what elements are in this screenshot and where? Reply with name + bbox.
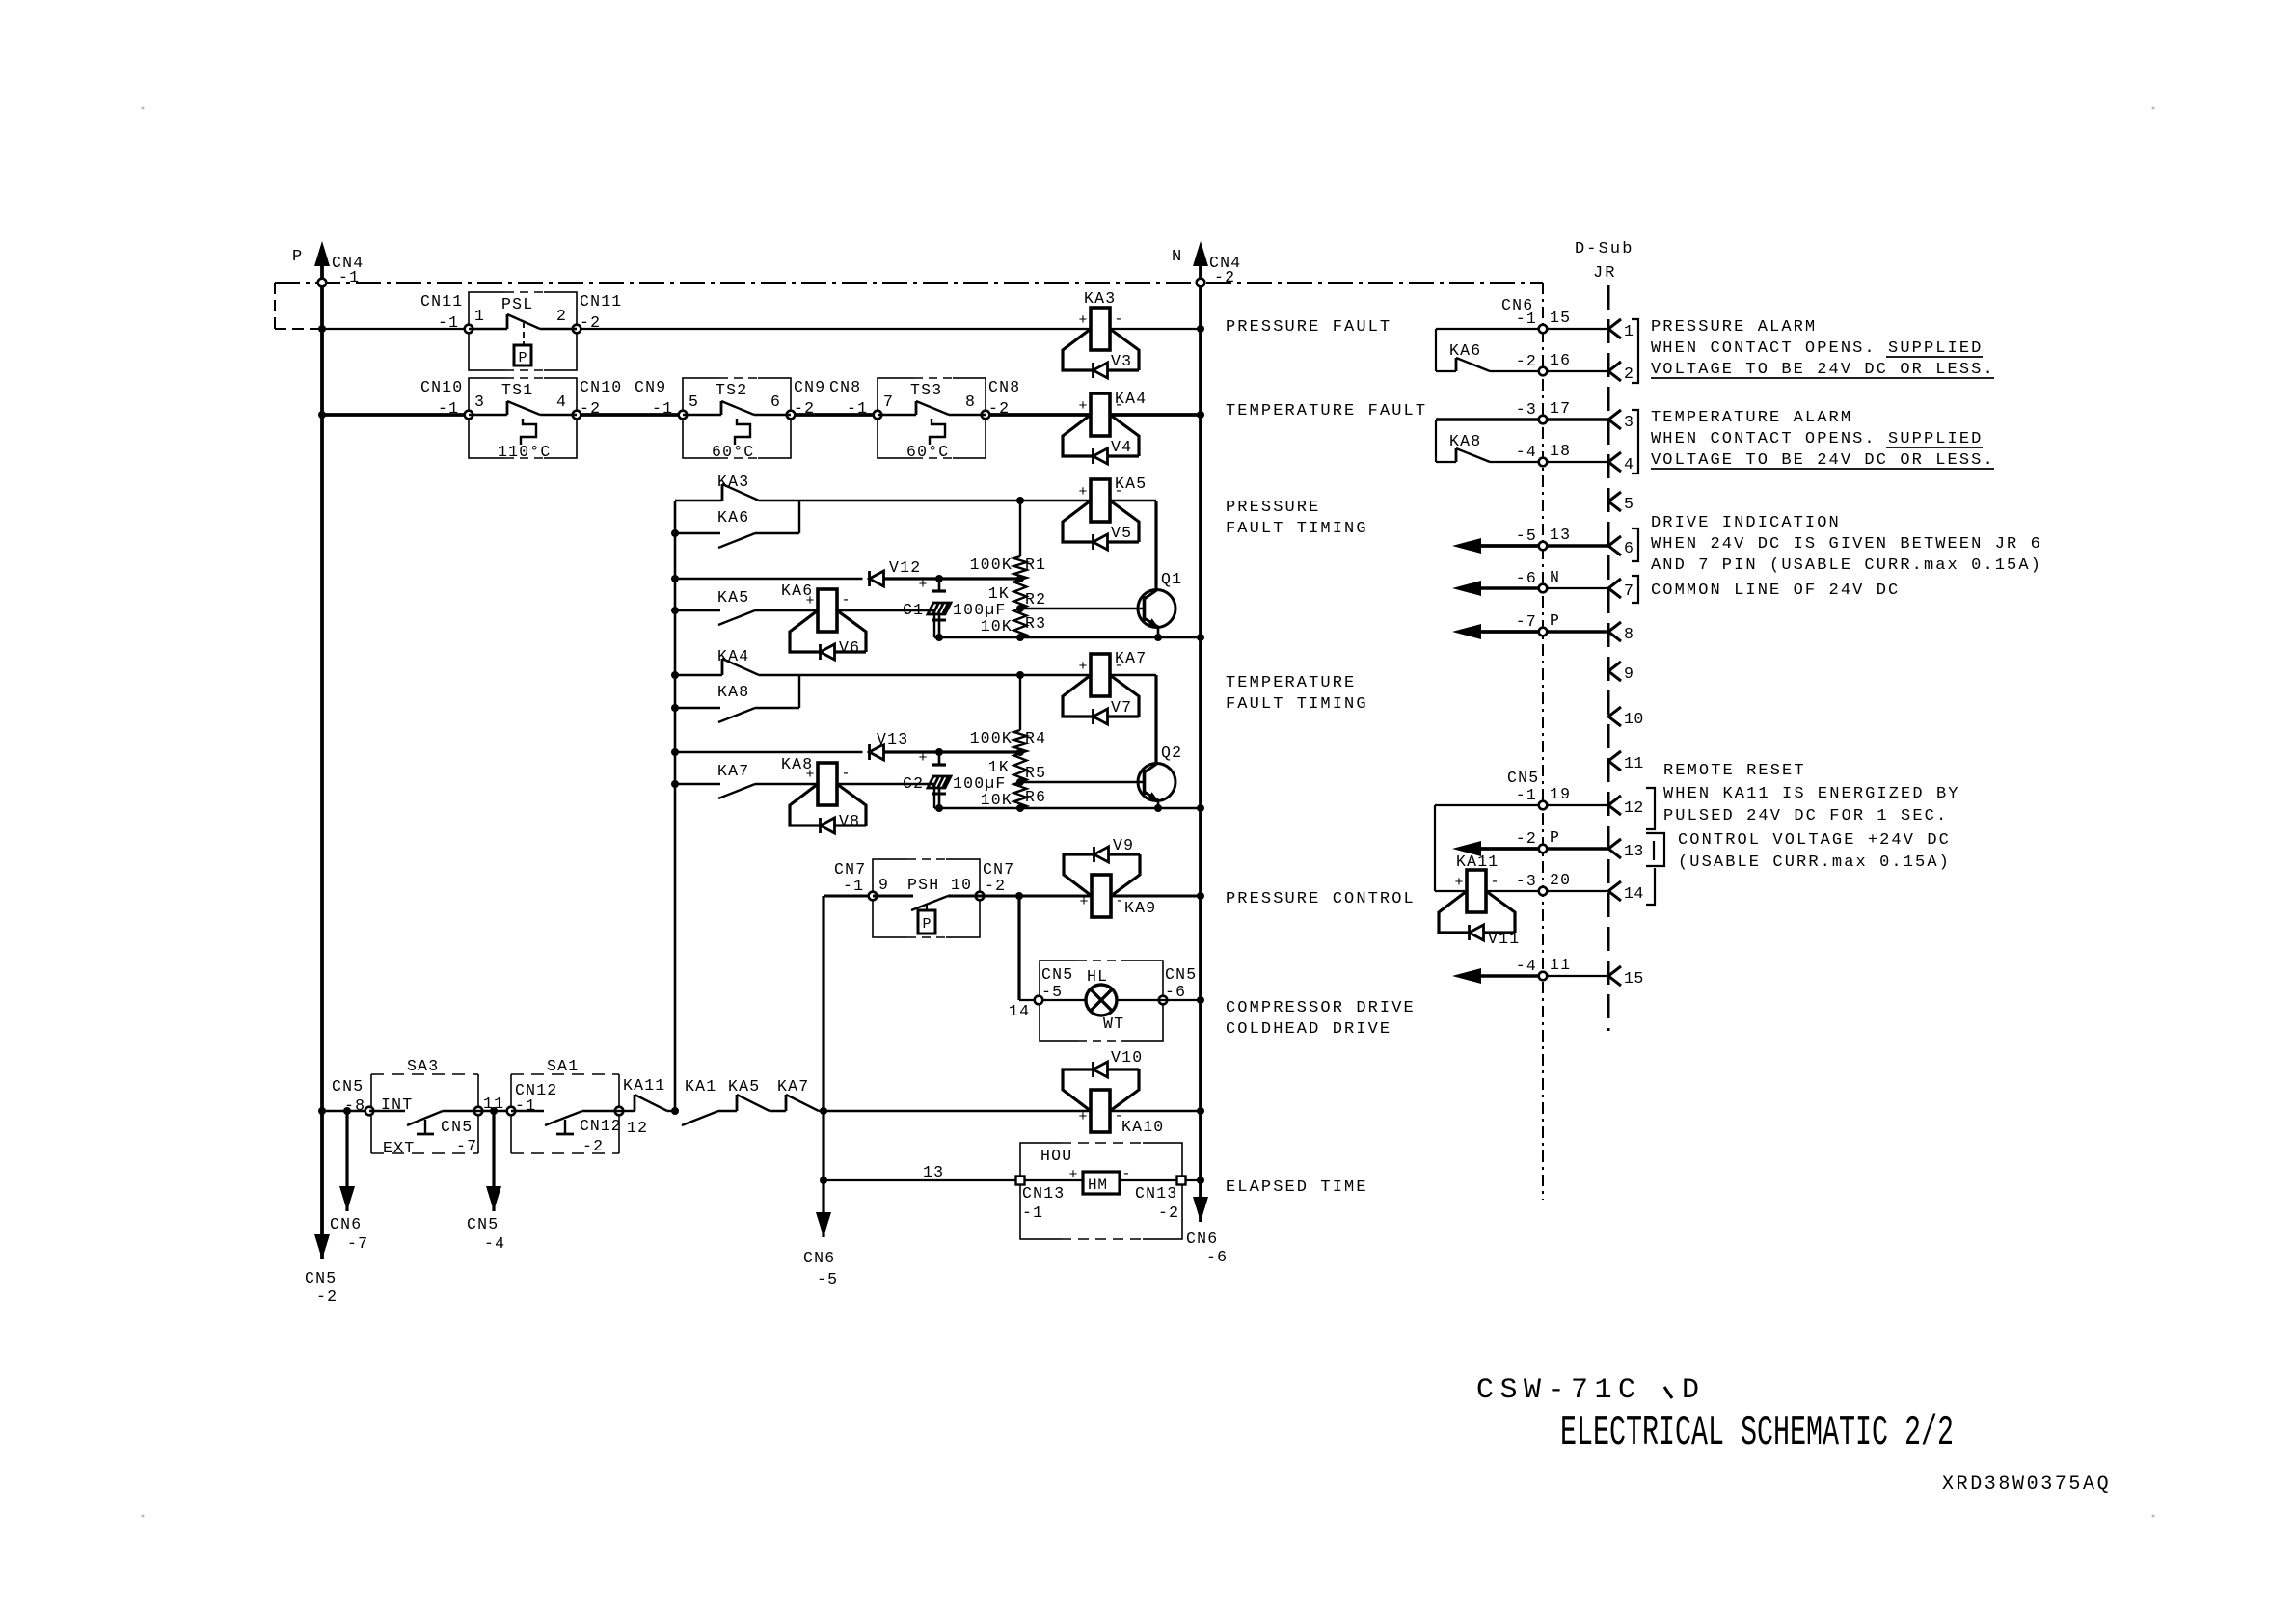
- JR pin 11: [1608, 751, 1621, 771]
- svg-text:CN13: CN13: [1135, 1184, 1177, 1203]
- branch arrow CN6-7: [343, 1107, 351, 1115]
- resistor R4 100K: [1019, 675, 1021, 730]
- svg-text:R3: R3: [1025, 614, 1046, 633]
- svg-text:110°C: 110°C: [498, 443, 552, 461]
- svg-text:REMOTE RESET: REMOTE RESET: [1663, 762, 1806, 780]
- svg-text:-: -: [1114, 483, 1122, 500]
- svg-text:14: 14: [1624, 884, 1644, 903]
- svg-text:-3: -3: [1516, 872, 1537, 890]
- svg-text:-2: -2: [988, 399, 1010, 418]
- wire pin14 row CN5-3: [1486, 890, 1539, 892]
- P rail (CN4-1): [314, 241, 330, 266]
- wire KA6 coil return: [837, 609, 934, 611]
- svg-text:KA5: KA5: [717, 588, 749, 607]
- svg-text:CN9: CN9: [635, 378, 666, 396]
- svg-text:-3: -3: [1516, 400, 1537, 419]
- arrow row pin 6 CN6-5: [1479, 544, 1543, 547]
- svg-text:-1: -1: [1516, 786, 1537, 804]
- wire base Q2: [1020, 781, 1144, 783]
- svg-text:CONTROL VOLTAGE +24V DC: CONTROL VOLTAGE +24V DC: [1678, 831, 1951, 850]
- relay coil KA4 with diode V4: [1091, 393, 1110, 436]
- N rail (CN4-2): [1193, 241, 1208, 266]
- svg-text:KA7: KA7: [777, 1077, 809, 1096]
- svg-text:+: +: [1079, 894, 1088, 910]
- svg-text:10: 10: [1624, 710, 1644, 728]
- svg-text:KA8: KA8: [1449, 432, 1481, 450]
- svg-text:-: -: [1114, 658, 1122, 674]
- svg-text:PSH: PSH: [907, 876, 939, 894]
- svg-text:4: 4: [556, 392, 567, 411]
- svg-text:HL: HL: [1087, 967, 1108, 986]
- svg-text:KA3: KA3: [717, 473, 749, 491]
- svg-text:-: -: [1490, 874, 1499, 890]
- svg-text:R2: R2: [1025, 590, 1046, 609]
- relay coil KA6 with diode V6: [818, 589, 837, 632]
- svg-text:60°C: 60°C: [712, 443, 754, 461]
- svg-text:-4: -4: [484, 1234, 505, 1253]
- CN6/CN5 connector dashed line: [1542, 283, 1544, 1200]
- wire join contacts: [798, 501, 800, 533]
- svg-text:V3: V3: [1111, 352, 1132, 370]
- svg-text:CN5: CN5: [332, 1077, 364, 1096]
- svg-text:PRESSURE ALARM: PRESSURE ALARM: [1651, 318, 1817, 337]
- svg-text:P: P: [1550, 611, 1560, 630]
- svg-text:18: 18: [1550, 442, 1571, 460]
- svg-text:CN5: CN5: [467, 1215, 499, 1233]
- wire row1 pressure fault: [322, 328, 469, 330]
- transistor Q2: [1138, 764, 1175, 801]
- svg-text:CN10: CN10: [580, 378, 622, 396]
- svg-text:HM: HM: [1088, 1177, 1108, 1194]
- svg-text:100K: 100K: [970, 555, 1013, 574]
- resistor R3 10K: [1014, 609, 1027, 637]
- svg-text:ELAPSED TIME: ELAPSED TIME: [1226, 1178, 1368, 1197]
- svg-text:+: +: [805, 593, 814, 609]
- svg-text:CN6: CN6: [1186, 1230, 1218, 1248]
- svg-text:+: +: [805, 767, 814, 783]
- svg-text:CN5: CN5: [1165, 965, 1197, 984]
- svg-text:-4: -4: [1516, 443, 1537, 461]
- svg-text:-6: -6: [1516, 569, 1537, 587]
- svg-text:SA3: SA3: [407, 1057, 439, 1075]
- svg-text:-2: -2: [580, 399, 601, 418]
- resistor R2 1K: [1014, 580, 1027, 609]
- svg-text:V7: V7: [1111, 698, 1132, 717]
- pressure timing bottom rail: [934, 636, 1201, 638]
- svg-text:P: P: [1550, 828, 1560, 847]
- svg-text:D: D: [1682, 1374, 1706, 1407]
- thermal switch TS1 (CN10) 110C: [469, 378, 577, 458]
- svg-text:+: +: [1078, 398, 1087, 415]
- svg-text:R4: R4: [1025, 729, 1046, 747]
- node CN4-1 on boundary: [318, 279, 327, 287]
- svg-text:PRESSURE: PRESSURE: [1226, 499, 1320, 517]
- lamp box CN5 HL/WT: [1019, 999, 1039, 1001]
- svg-text:KA6: KA6: [1449, 341, 1481, 360]
- svg-text:CN11: CN11: [420, 292, 463, 311]
- svg-text:V4: V4: [1111, 438, 1132, 456]
- svg-text:KA1: KA1: [685, 1077, 716, 1096]
- svg-text:12: 12: [627, 1119, 648, 1137]
- svg-text:WHEN 24V DC IS GIVEN BETWEEN J: WHEN 24V DC IS GIVEN BETWEEN JR 6: [1651, 535, 2042, 554]
- svg-text:Q2: Q2: [1161, 744, 1182, 762]
- svg-text:12: 12: [1624, 798, 1644, 817]
- svg-text:R6: R6: [1025, 788, 1046, 806]
- svg-text:8: 8: [1624, 625, 1634, 643]
- contact KA4 (temperature fault timing): [671, 671, 679, 679]
- dashed frame corner at left: [274, 283, 276, 329]
- svg-text:TEMPERATURE: TEMPERATURE: [1226, 674, 1356, 692]
- svg-text:15: 15: [1624, 969, 1644, 988]
- contact KA8 alarm: [1435, 420, 1437, 462]
- temperature timing bottom rail: [934, 807, 1201, 809]
- svg-text:6: 6: [770, 392, 781, 411]
- svg-text:+: +: [1078, 1109, 1087, 1125]
- wire join contacts temp: [798, 675, 800, 708]
- svg-text:+: +: [1454, 875, 1463, 891]
- svg-text:-2: -2: [582, 1137, 604, 1155]
- svg-text:-4: -4: [1516, 957, 1537, 975]
- svg-text:COLDHEAD DRIVE: COLDHEAD DRIVE: [1226, 1020, 1391, 1039]
- svg-text:-2: -2: [1516, 352, 1537, 370]
- svg-text:SA1: SA1: [547, 1057, 579, 1075]
- diode V12: [868, 571, 871, 586]
- svg-text:16: 16: [1550, 351, 1571, 369]
- svg-text:-5: -5: [1516, 527, 1537, 545]
- svg-text:PULSED 24V DC FOR 1 SEC.: PULSED 24V DC FOR 1 SEC.: [1663, 807, 1948, 826]
- svg-text:6: 6: [1624, 539, 1634, 557]
- svg-text:KA11: KA11: [623, 1076, 665, 1095]
- svg-text:TS1: TS1: [501, 381, 533, 399]
- svg-text:-6: -6: [1165, 983, 1186, 1001]
- svg-text:-2: -2: [985, 877, 1006, 895]
- svg-text:-2: -2: [316, 1287, 338, 1306]
- svg-text:11: 11: [1624, 754, 1644, 772]
- svg-text:13: 13: [923, 1163, 944, 1181]
- branch arrow CN5-4: [490, 1107, 498, 1115]
- hour counter box HOU (CN13): [1020, 1143, 1182, 1239]
- svg-text:V8: V8: [839, 812, 860, 830]
- svg-text:FAULT TIMING: FAULT TIMING: [1226, 695, 1368, 714]
- selector switch SA1 (CN12): [511, 1073, 619, 1075]
- svg-text:P: P: [922, 916, 931, 933]
- svg-text:-5: -5: [817, 1270, 838, 1288]
- contact KA6 parallel: [671, 529, 679, 537]
- elapsed time row: [824, 1179, 1015, 1181]
- svg-text:9: 9: [1624, 664, 1634, 683]
- svg-text:CN11: CN11: [580, 292, 622, 311]
- relay coil KA3 with diode V3: [1091, 308, 1110, 350]
- svg-text:+: +: [1078, 312, 1087, 329]
- wire down to KA11 coil: [1434, 805, 1436, 891]
- svg-text:ELECTRICAL SCHEMATIC 2/2: ELECTRICAL SCHEMATIC 2/2: [1560, 1409, 1954, 1457]
- svg-text:WT: WT: [1103, 1015, 1124, 1033]
- svg-text:CN5: CN5: [1507, 769, 1539, 787]
- wire pin1 row pressure alarm: [1436, 328, 1539, 330]
- capacitor C1 100uF: [938, 579, 941, 591]
- JR pin 9: [1608, 662, 1621, 681]
- svg-text:R5: R5: [1025, 764, 1046, 782]
- relay coil KA10 with diode V10 above: [1091, 1090, 1110, 1132]
- branch arrow CN6-5: [820, 1177, 827, 1184]
- svg-text:5: 5: [1624, 495, 1634, 513]
- svg-text:-1: -1: [438, 399, 459, 418]
- svg-text:CN13: CN13: [1022, 1184, 1065, 1203]
- svg-text:HOU: HOU: [1040, 1147, 1072, 1165]
- svg-text:(USABLE CURR.max 0.15A): (USABLE CURR.max 0.15A): [1678, 853, 1951, 872]
- arrow row pin 7 CN6-6 N: [1479, 586, 1543, 589]
- svg-text:-7: -7: [456, 1137, 477, 1155]
- svg-text:CN8: CN8: [829, 378, 861, 396]
- selector switch SA3 (CN5): [371, 1073, 478, 1075]
- contact KA5 (lower branch): [671, 607, 679, 614]
- lamp WT symbol: [1042, 999, 1086, 1001]
- wire V13 row: [671, 748, 679, 756]
- JR pin 5: [1608, 492, 1621, 511]
- svg-text:2: 2: [1624, 365, 1634, 383]
- svg-text:KA8: KA8: [717, 683, 749, 701]
- svg-text:TS3: TS3: [910, 381, 942, 399]
- svg-text:KA7: KA7: [717, 762, 749, 780]
- svg-text:N: N: [1550, 568, 1560, 586]
- hour meter HM: [1024, 1179, 1083, 1181]
- svg-text:KA5: KA5: [728, 1077, 760, 1096]
- svg-text:VOLTAGE TO BE 24V DC OR LESS.: VOLTAGE TO BE 24V DC OR LESS.: [1651, 451, 1995, 470]
- svg-text:-1: -1: [847, 399, 868, 418]
- svg-text:WHEN CONTACT OPENS. SUPPLIED: WHEN CONTACT OPENS. SUPPLIED: [1651, 430, 1983, 448]
- wire to KA5 coil: [799, 500, 1091, 501]
- svg-text:P: P: [518, 350, 527, 366]
- svg-text:KA9: KA9: [1124, 899, 1156, 917]
- svg-text:TS2: TS2: [716, 381, 747, 399]
- svg-text:-2: -2: [1158, 1204, 1179, 1222]
- svg-text:8: 8: [965, 392, 976, 411]
- bracket pins 1-2: [1632, 319, 1638, 383]
- contact KA3 (pressure fault timing): [675, 500, 722, 501]
- svg-text:+: +: [1078, 659, 1087, 675]
- wire V12 row: [671, 575, 679, 582]
- svg-text:-2: -2: [1214, 268, 1235, 286]
- svg-text:-: -: [1114, 397, 1122, 414]
- svg-text:-2: -2: [580, 313, 601, 332]
- svg-text:CN5: CN5: [441, 1118, 473, 1136]
- svg-text:15: 15: [1550, 309, 1571, 327]
- wire pin12 row remote reset CN5-1: [1435, 804, 1539, 806]
- svg-text:10K: 10K: [981, 617, 1013, 636]
- contact KA6 alarm: [1435, 329, 1437, 371]
- svg-text:V13: V13: [877, 730, 908, 748]
- svg-text:CN6: CN6: [330, 1215, 362, 1233]
- pressure switch PSL (CN11): [469, 292, 577, 370]
- svg-text:XRD38W0375AQ: XRD38W0375AQ: [1942, 1474, 2111, 1496]
- svg-text:V12: V12: [889, 558, 921, 577]
- svg-text:1K: 1K: [988, 584, 1010, 603]
- svg-text:KA4: KA4: [717, 647, 749, 665]
- svg-text:V11: V11: [1488, 930, 1520, 948]
- svg-text:+: +: [918, 750, 927, 767]
- svg-text:V5: V5: [1111, 524, 1132, 542]
- svg-text:JR: JR: [1593, 264, 1617, 283]
- svg-text:+: +: [1068, 1167, 1077, 1183]
- svg-text:4: 4: [1624, 455, 1634, 474]
- svg-text:EXT: EXT: [383, 1139, 415, 1157]
- relay coil KA11 with diode V11: [1467, 870, 1486, 912]
- svg-text:2: 2: [556, 307, 567, 325]
- svg-text:10K: 10K: [981, 791, 1013, 809]
- registration marks: [142, 107, 145, 110]
- svg-text:1: 1: [474, 307, 485, 325]
- svg-text:N: N: [1172, 248, 1181, 266]
- svg-text:20: 20: [1550, 871, 1571, 889]
- svg-text:V9: V9: [1113, 836, 1134, 854]
- svg-text:CSW-71C: CSW-71C: [1476, 1374, 1642, 1407]
- svg-text:-1: -1: [1022, 1204, 1043, 1222]
- wire KA5 to Q1 collector: [1110, 500, 1156, 501]
- bottom control row: [322, 1110, 369, 1112]
- wire bottom row to KA10: [824, 1110, 1091, 1112]
- svg-text:-1: -1: [438, 313, 459, 332]
- diode V13: [868, 744, 871, 760]
- svg-text:-7: -7: [347, 1234, 368, 1253]
- svg-text:-2: -2: [794, 399, 815, 418]
- capacitor C2 100uF: [938, 752, 941, 765]
- svg-text:1K: 1K: [988, 758, 1010, 776]
- svg-text:-5: -5: [1041, 983, 1063, 1001]
- svg-text:TEMPERATURE FAULT: TEMPERATURE FAULT: [1226, 402, 1427, 420]
- svg-text:V6: V6: [839, 638, 860, 657]
- arrow row pin15 CN5-4: [1479, 974, 1543, 977]
- wire pin3 row temperature alarm: [1436, 418, 1539, 420]
- svg-text:10: 10: [951, 876, 972, 894]
- svg-text:COMPRESSOR DRIVE: COMPRESSOR DRIVE: [1226, 999, 1416, 1017]
- svg-text:WHEN KA11 IS ENERGIZED BY: WHEN KA11 IS ENERGIZED BY: [1663, 785, 1960, 803]
- resistor R5 1K: [1014, 753, 1027, 782]
- thermal switch TS2 (CN9) 60C: [683, 378, 791, 458]
- svg-text:PSL: PSL: [501, 295, 533, 313]
- relay coil KA8 with diode V8: [818, 763, 837, 805]
- svg-text:-: -: [1115, 893, 1123, 909]
- svg-text:CN5: CN5: [1041, 965, 1073, 984]
- wire SA3 to SA1 node 11: [478, 1110, 511, 1112]
- wire Q2 emitter to rail: [1157, 800, 1160, 808]
- svg-text:KA10: KA10: [1121, 1118, 1164, 1136]
- wire row2 temperature fault: [322, 413, 469, 417]
- svg-text:PRESSURE CONTROL: PRESSURE CONTROL: [1226, 890, 1416, 908]
- relay coil KA9 with diode V9 above: [1092, 875, 1111, 917]
- relay coil KA5 with diode V5: [1091, 479, 1110, 522]
- svg-text:WHEN CONTACT OPENS. SUPPLIED: WHEN CONTACT OPENS. SUPPLIED: [1651, 339, 1983, 358]
- svg-text:3: 3: [474, 392, 485, 411]
- svg-text:CN5: CN5: [305, 1269, 337, 1287]
- brackets pins 12-14: [1646, 788, 1655, 829]
- svg-text:D-Sub: D-Sub: [1575, 240, 1634, 258]
- svg-text:AND 7 PIN (USABLE CURR.max 0.1: AND 7 PIN (USABLE CURR.max 0.15A): [1651, 556, 2042, 575]
- JR pin 10: [1608, 707, 1621, 726]
- svg-text:+: +: [1078, 484, 1087, 501]
- wire to KA7 coil: [799, 674, 1091, 676]
- svg-text:+: +: [918, 577, 927, 593]
- svg-text:CN10: CN10: [420, 378, 463, 396]
- svg-text:5: 5: [689, 392, 699, 411]
- svg-text:-6: -6: [1206, 1248, 1228, 1266]
- svg-text:3: 3: [1624, 413, 1634, 431]
- svg-text:60°C: 60°C: [906, 443, 949, 461]
- left control vertical wire: [674, 501, 677, 1111]
- svg-text:-1: -1: [652, 399, 673, 418]
- svg-text:-1: -1: [843, 877, 864, 895]
- arrow row pin 8 CN6-7 P: [1479, 630, 1543, 633]
- wire down to lamp row: [1017, 896, 1020, 1000]
- svg-text:DRIVE INDICATION: DRIVE INDICATION: [1651, 514, 1841, 532]
- svg-text:13: 13: [1550, 526, 1571, 544]
- thermal switch TS3 (CN8) 60C: [878, 378, 986, 458]
- svg-text:11: 11: [1550, 956, 1571, 974]
- bracket pins 3-4: [1632, 410, 1638, 474]
- svg-text:9: 9: [878, 876, 889, 894]
- svg-text:7: 7: [1624, 582, 1634, 600]
- relay coil KA7 with diode V7: [1091, 654, 1110, 696]
- svg-text:P: P: [292, 248, 302, 266]
- wire base Q1: [1020, 608, 1144, 609]
- vertical wire to PSH row: [822, 896, 824, 1180]
- wire KA8 coil return: [837, 783, 934, 785]
- svg-text:19: 19: [1550, 785, 1571, 803]
- svg-text:13: 13: [1624, 842, 1644, 860]
- transistor Q1: [1138, 590, 1175, 628]
- svg-text:17: 17: [1550, 399, 1571, 418]
- resistor R6 10K: [1014, 782, 1027, 808]
- svg-text:-1: -1: [338, 268, 360, 286]
- wire KA7 to Q2 collector: [1110, 674, 1156, 676]
- svg-text:KA3: KA3: [1084, 289, 1116, 308]
- svg-text:CN9: CN9: [794, 378, 825, 396]
- svg-text:-: -: [841, 592, 850, 609]
- svg-text:-: -: [1114, 311, 1122, 328]
- dash-dot boundary line: [275, 282, 1543, 284]
- contact KA8 parallel: [671, 704, 679, 712]
- contact KA11: [619, 1110, 635, 1112]
- resistor R1 100K: [1019, 501, 1021, 556]
- svg-text:-2: -2: [1516, 829, 1537, 848]
- svg-text:VOLTAGE TO BE 24V DC OR LESS.: VOLTAGE TO BE 24V DC OR LESS.: [1651, 361, 1995, 379]
- svg-text:FAULT TIMING: FAULT TIMING: [1226, 520, 1368, 538]
- contact KA7 (lower branch): [671, 780, 679, 788]
- svg-text:-1: -1: [1516, 310, 1537, 328]
- svg-text:KA6: KA6: [717, 508, 749, 527]
- svg-text:CN8: CN8: [988, 378, 1020, 396]
- node CN4-2 on boundary: [1197, 279, 1205, 287]
- svg-text:-: -: [841, 766, 850, 782]
- svg-text:CN12: CN12: [580, 1117, 622, 1135]
- svg-text:100K: 100K: [970, 729, 1013, 747]
- svg-text:TEMPERATURE ALARM: TEMPERATURE ALARM: [1651, 409, 1852, 427]
- svg-text:COMMON LINE OF 24V DC: COMMON LINE OF 24V DC: [1651, 582, 1900, 600]
- pressure control row wire: [824, 895, 873, 898]
- wire PSH to KA9 and N: [948, 895, 1092, 898]
- svg-text:CN6: CN6: [803, 1249, 835, 1267]
- pressure switch PSH (CN7): [873, 859, 980, 937]
- svg-text:R1: R1: [1025, 555, 1046, 574]
- svg-text:1: 1: [1624, 322, 1634, 340]
- arrow row pin13 CN5-2 P: [1479, 847, 1543, 850]
- svg-text:PRESSURE FAULT: PRESSURE FAULT: [1226, 318, 1391, 337]
- svg-text:14: 14: [1009, 1002, 1030, 1020]
- svg-text:-7: -7: [1516, 612, 1537, 631]
- svg-text:Q1: Q1: [1161, 570, 1182, 588]
- svg-text:7: 7: [883, 392, 894, 411]
- wire Q1 emitter to rail: [1157, 627, 1160, 637]
- svg-text:V10: V10: [1111, 1048, 1143, 1067]
